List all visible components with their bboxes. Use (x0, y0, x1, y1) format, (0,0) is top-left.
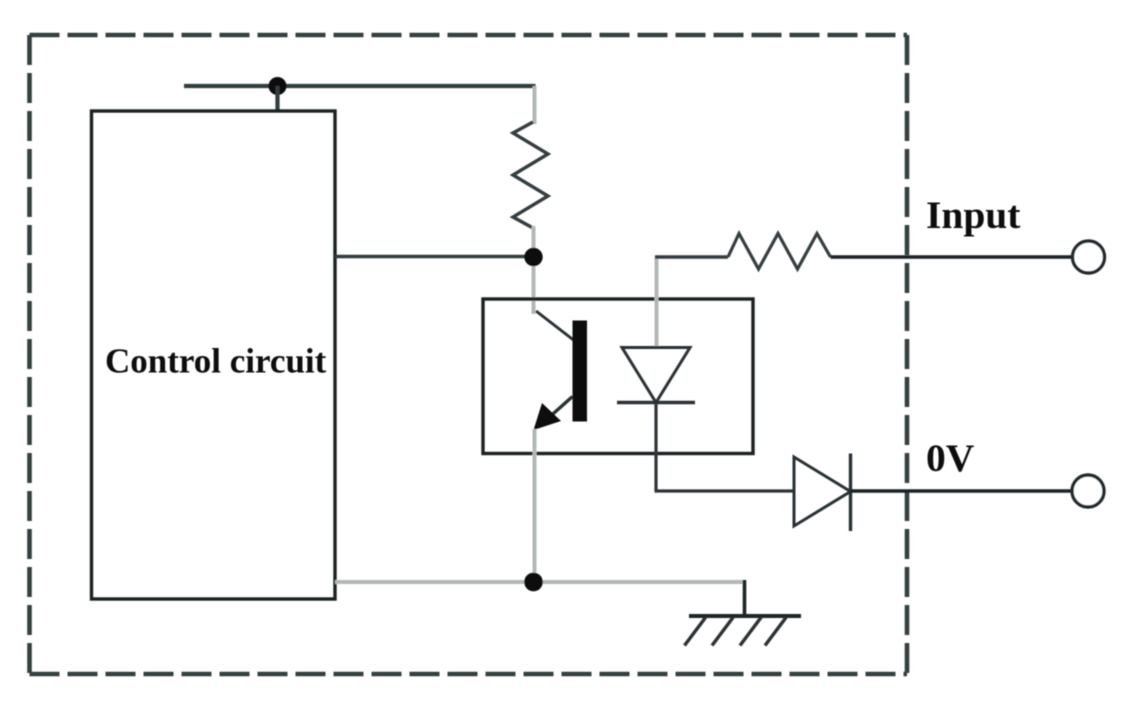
transistor Q1: emitter lead (545, 397, 573, 422)
wire: top supply rail (184, 84, 536, 88)
wire: control box to node under R1 (335, 255, 534, 259)
wire: gray from R1 to opto box (532, 226, 536, 314)
ground: hatch 2 (712, 618, 733, 646)
optocoupler box U1 (483, 299, 753, 454)
terminal: Input circle (1073, 241, 1105, 273)
ground: bar (689, 614, 801, 618)
svg-text:Control circuit: Control circuit (105, 342, 327, 381)
diode D1 cathode bar (849, 454, 852, 532)
transistor Q1: collector lead (536, 311, 574, 340)
wire: gray from top rail to resistor R1 (533, 86, 537, 124)
wire: D1 to 0V terminal (851, 489, 1073, 493)
wire: R2 to Input terminal (831, 255, 1073, 259)
wire: stub from top rail to control box (275, 86, 279, 111)
diode D1 triangle (794, 457, 851, 526)
resistor R1 (vertical) (513, 122, 548, 228)
wire: gray bottom rail (335, 580, 745, 584)
resistor R2 (horizontal) (728, 234, 831, 270)
wire: input corner to resistor R2 (655, 255, 728, 258)
ground: hatch 1 (685, 618, 706, 646)
terminal: 0V circle (1072, 475, 1104, 507)
node: junction dot on bottom rail (524, 573, 543, 592)
ground: lead (743, 580, 747, 616)
wire: gray emitter down to bottom rail (533, 429, 537, 582)
node: junction dot under R1 (524, 248, 542, 266)
ground: hatch 4 (765, 618, 786, 646)
node: junction dot on top rail (269, 77, 287, 95)
ground: hatch 3 (740, 618, 761, 646)
wire: gray LED anode from input corner into box (655, 257, 659, 349)
transistor Q1: base bar (573, 321, 588, 422)
LED D2 cathode bar (617, 401, 695, 404)
dashed enclosure border (30, 35, 908, 674)
svg-text:0V: 0V (926, 436, 975, 480)
wire: LED cathode down and right to diode D1 (655, 403, 795, 492)
svg-text:Input: Input (926, 193, 1020, 237)
LED D2 triangle (622, 348, 690, 403)
transistor Q1: emitter arrowhead (534, 403, 562, 430)
control circuit box (92, 111, 336, 599)
